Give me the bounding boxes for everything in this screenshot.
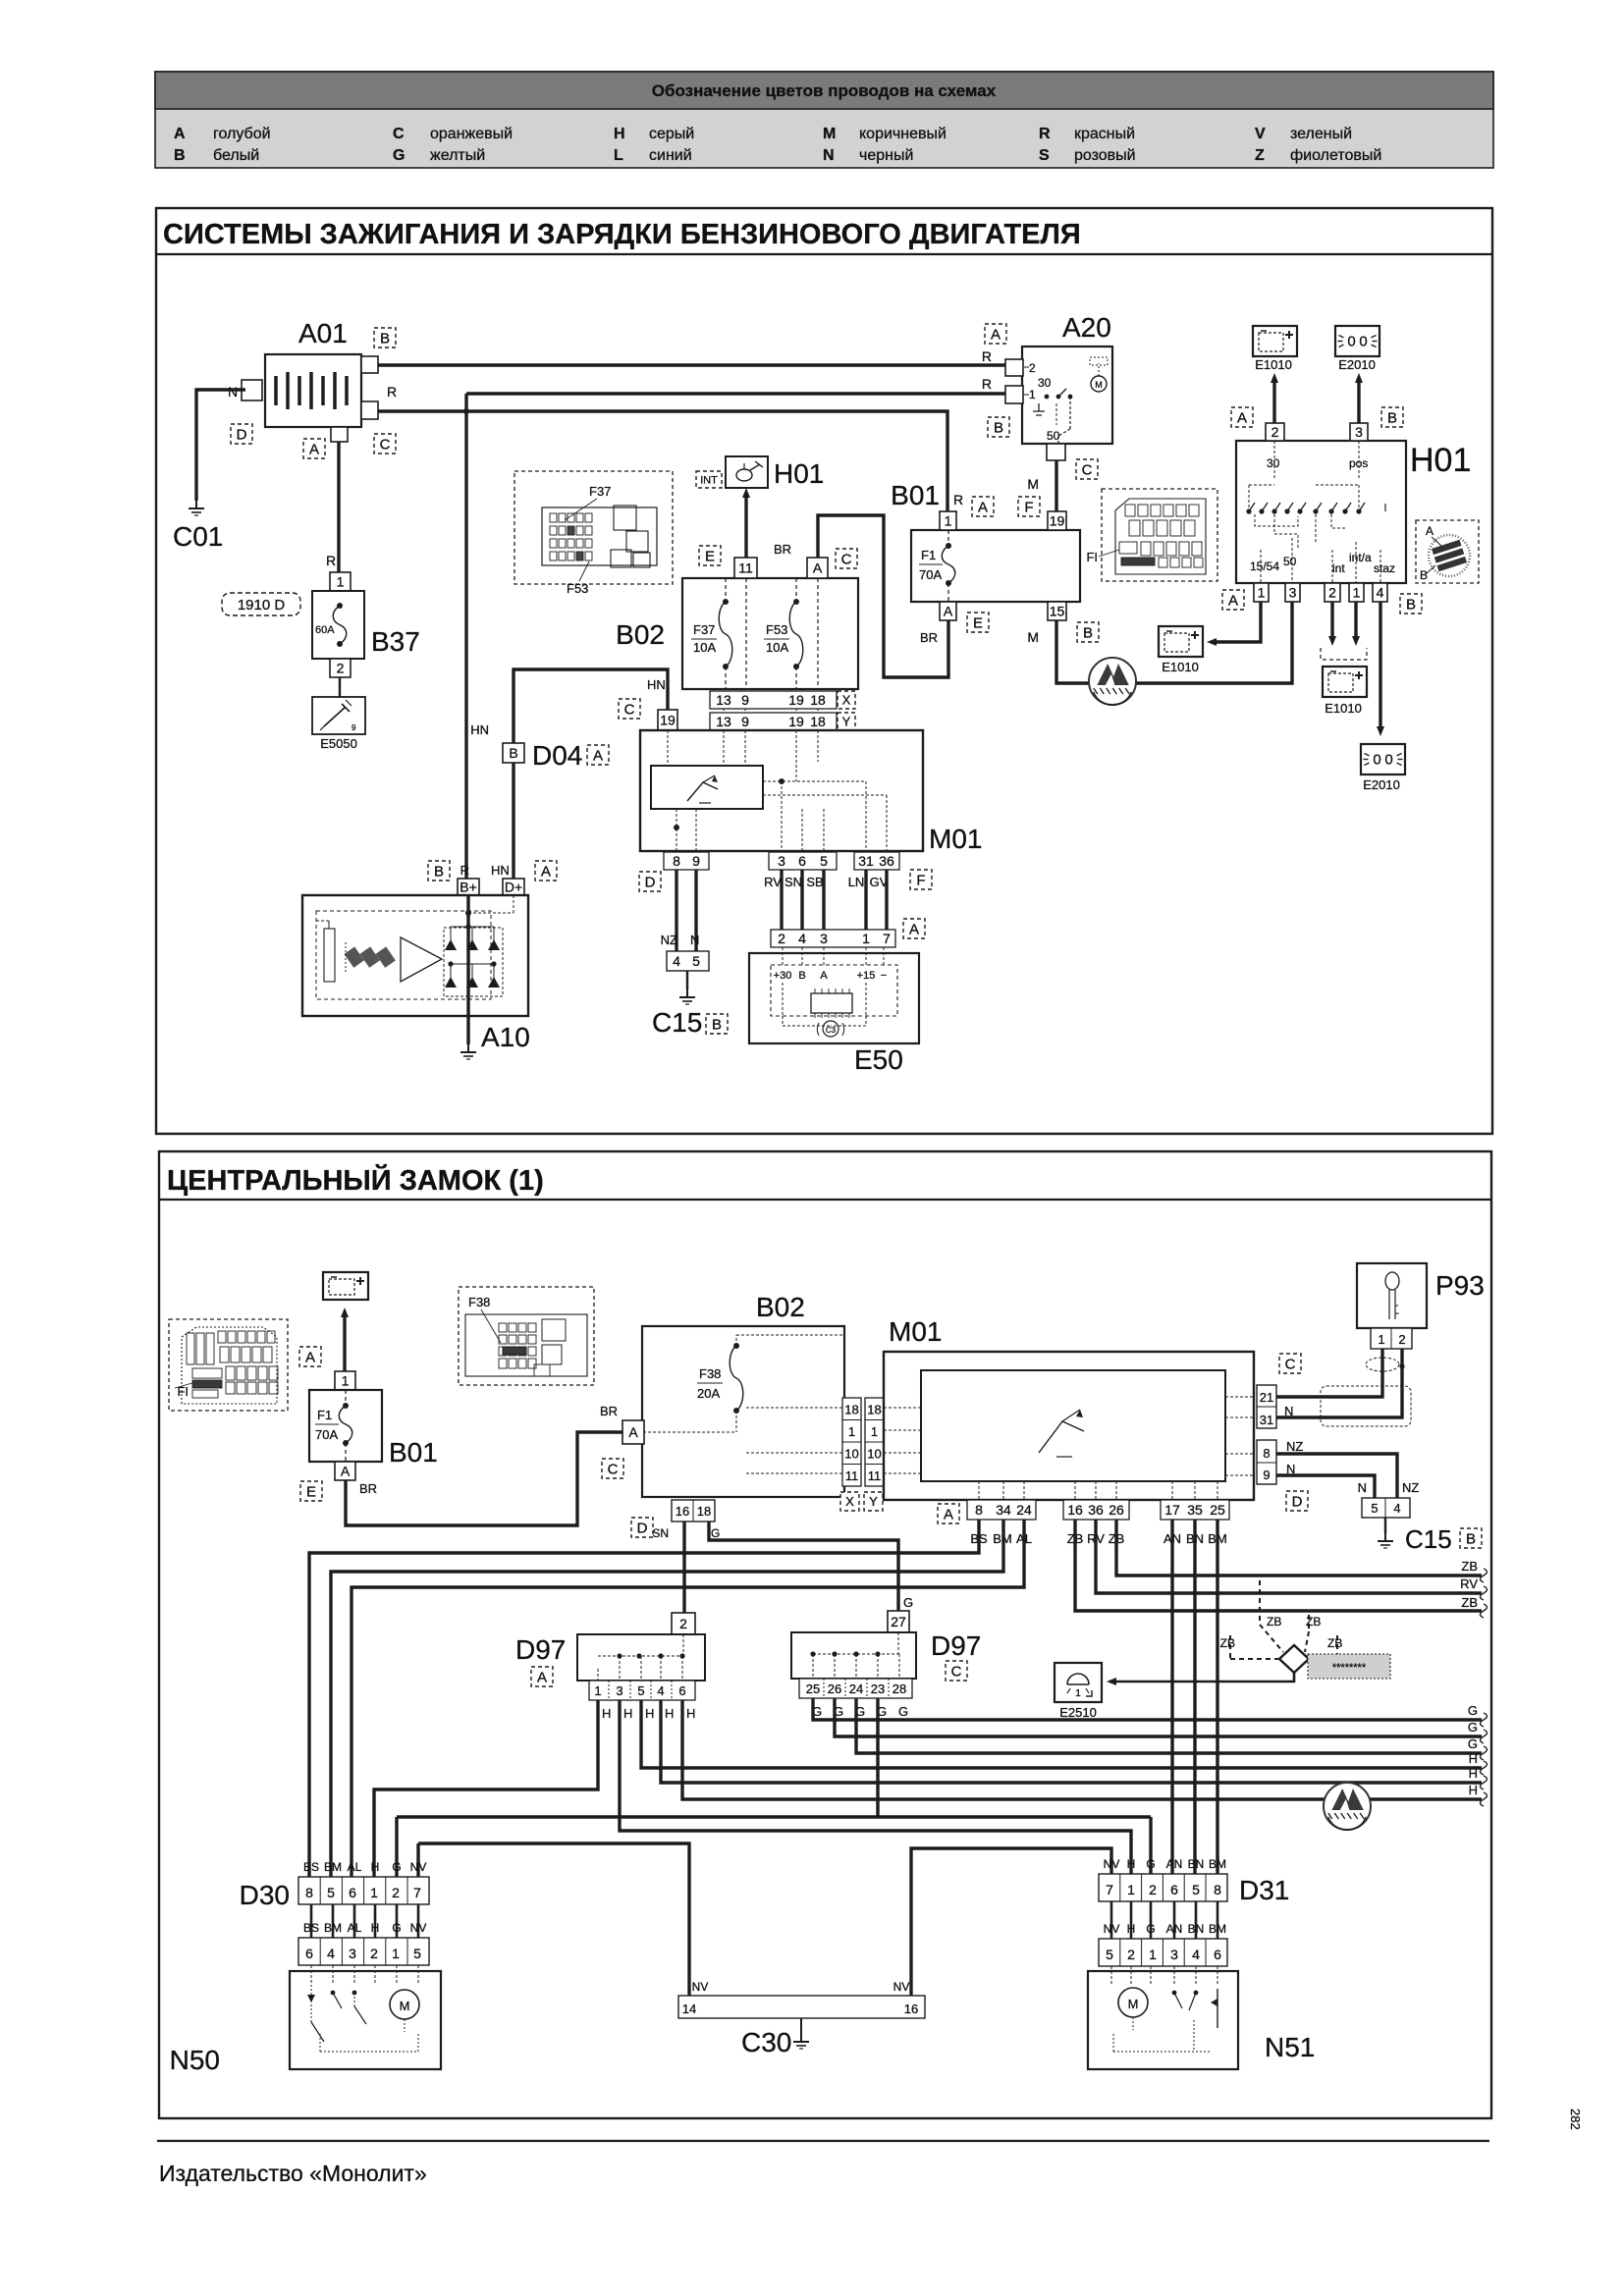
faded label box	[1308, 1654, 1390, 1679]
svg-text:F53: F53	[567, 581, 588, 596]
svg-text:H: H	[1469, 1751, 1478, 1766]
svg-text:25: 25	[806, 1682, 820, 1696]
Monolit emblem on wire	[1089, 658, 1136, 705]
svg-text:26: 26	[828, 1682, 841, 1696]
wire N: P93 pin2 to M01 pin 31	[1276, 1349, 1402, 1417]
svg-text:R: R	[1039, 126, 1051, 142]
wire H: D97-A pin 5 to right edge	[641, 1700, 1482, 1768]
svg-text:NZ: NZ	[1286, 1439, 1303, 1454]
svg-text:F: F	[916, 872, 925, 888]
ignition switch H01	[1231, 407, 1471, 583]
svg-text:C15: C15	[1405, 1524, 1452, 1554]
svg-text:желтый: желтый	[430, 147, 485, 164]
svg-text:NV: NV	[410, 1860, 427, 1874]
svg-text:SN: SN	[652, 1526, 669, 1540]
svg-text:1: 1	[594, 1683, 601, 1698]
svg-text:26: 26	[1109, 1502, 1124, 1518]
wire up from B01 pin 1	[343, 1315, 346, 1371]
door lock actuator N51	[1088, 1966, 1315, 2069]
wire H01 pin 2 to E1010	[1272, 383, 1275, 423]
svg-text:36: 36	[879, 853, 894, 869]
svg-text:+30: +30	[774, 970, 792, 982]
svg-text:синий: синий	[649, 147, 692, 164]
svg-text:8: 8	[1263, 1446, 1270, 1461]
svg-text:20A: 20A	[697, 1386, 720, 1401]
svg-text:18: 18	[867, 1403, 881, 1417]
H01 bottom connectors 1 3 2 1 4	[1254, 583, 1269, 602]
wire NV: C30 pin 16 to D31 pin 7	[911, 1848, 1111, 1996]
svg-text:A: A	[813, 561, 823, 576]
svg-text:AL: AL	[348, 1860, 362, 1874]
svg-text:B: B	[174, 147, 186, 164]
svg-text:5: 5	[1106, 1947, 1113, 1962]
svg-text:31: 31	[858, 853, 874, 869]
svg-text:D: D	[1292, 1493, 1303, 1510]
svg-text:A: A	[909, 921, 919, 937]
door lock connector D97-C	[791, 1611, 981, 1681]
svg-text:H: H	[686, 1706, 695, 1721]
svg-text:19: 19	[660, 713, 676, 728]
svg-text:A: A	[820, 970, 828, 982]
svg-text:BM: BM	[1209, 1922, 1226, 1936]
wire G: D97-C pin 23 to D30 and D31	[876, 1698, 879, 1817]
svg-text:зеленый: зеленый	[1290, 126, 1352, 142]
svg-text:F37: F37	[693, 622, 715, 637]
svg-text:NV: NV	[1104, 1922, 1120, 1936]
connector code 1910 D	[222, 593, 300, 615]
svg-text:F38: F38	[699, 1366, 721, 1381]
wire A01-C (R) to B01 pin 1	[378, 411, 947, 511]
wire SN: B02 pin16 to D97-A pin 2	[682, 1522, 685, 1613]
svg-text:E: E	[705, 548, 715, 564]
svg-text:M: M	[1027, 476, 1039, 492]
splice of ZB wires	[1220, 1580, 1343, 1673]
svg-text:M: M	[400, 1999, 410, 2013]
svg-text:A20: A20	[1062, 312, 1111, 343]
wire NZ: M01 pin 8 to C15 pin 4	[1276, 1454, 1397, 1498]
svg-text:282: 282	[1568, 2109, 1583, 2130]
svg-text:A: A	[309, 441, 319, 457]
svg-text:50: 50	[1283, 555, 1297, 568]
svg-text:серый: серый	[649, 126, 694, 142]
svg-text:4: 4	[1393, 1501, 1400, 1516]
wire H: D97-A pin 1 to D30	[374, 1700, 598, 1877]
starter relay A20	[985, 312, 1112, 460]
svg-text:C: C	[951, 1663, 962, 1680]
svg-text:N: N	[690, 933, 699, 947]
svg-text:SN: SN	[784, 875, 802, 889]
svg-text:F1: F1	[921, 548, 936, 562]
svg-text:23: 23	[871, 1682, 885, 1696]
svg-text:10: 10	[844, 1447, 858, 1462]
svg-text:A: A	[944, 1506, 953, 1522]
M01 d2 right connector 8 9	[1257, 1439, 1308, 1511]
footer separator	[157, 2140, 1489, 2142]
svg-text:B37: B37	[371, 626, 420, 657]
wire G: D97-C pin 26 to right edge	[835, 1698, 1482, 1736]
svg-text:1910 D: 1910 D	[238, 597, 286, 614]
svg-text:6: 6	[798, 853, 806, 869]
fuse box inset with F37/F53 location	[514, 471, 673, 596]
svg-text:L: L	[614, 147, 623, 164]
svg-text:BN: BN	[1188, 1857, 1205, 1871]
exterior lighting icon E2010 (lower)	[1361, 744, 1405, 774]
svg-text:18: 18	[844, 1403, 858, 1417]
svg-text:1: 1	[337, 574, 345, 590]
svg-text:V: V	[1255, 126, 1266, 142]
svg-text:1: 1	[862, 931, 870, 946]
svg-text:H01: H01	[1410, 442, 1471, 479]
svg-text:C01: C01	[173, 521, 223, 552]
svg-text:30: 30	[1038, 376, 1052, 390]
svg-text:M: M	[823, 126, 836, 142]
svg-text:28: 28	[893, 1682, 906, 1696]
svg-text:H: H	[623, 1706, 632, 1721]
svg-text:1: 1	[370, 1885, 378, 1900]
svg-text:B: B	[1406, 596, 1416, 613]
svg-text:11: 11	[868, 1468, 882, 1483]
svg-text:19: 19	[788, 714, 804, 729]
fuse box inset F38	[459, 1287, 594, 1385]
svg-text:9: 9	[352, 723, 356, 732]
M01 d2 bottom pin group 16 36 26	[1063, 1500, 1129, 1520]
connector C15 pins 4 5	[667, 951, 709, 971]
M01 bottom pin group 3 6 5	[769, 852, 837, 870]
svg-text:10A: 10A	[766, 640, 788, 655]
svg-text:оранжевый: оранжевый	[430, 126, 513, 142]
svg-text:BS: BS	[303, 1860, 319, 1874]
D97-A pin row 1 3 5 4 6	[589, 1681, 695, 1700]
svg-text:15/54: 15/54	[1250, 560, 1279, 573]
in-line connector D04	[503, 743, 524, 763]
svg-text:N: N	[823, 147, 835, 164]
svg-text:C: C	[1285, 1356, 1296, 1372]
svg-text:1: 1	[1353, 585, 1361, 601]
svg-text:A: A	[537, 1669, 547, 1685]
svg-text:M: M	[1128, 1997, 1139, 2011]
wire A01-A to fuse B37	[337, 442, 340, 572]
svg-text:2: 2	[1328, 585, 1336, 601]
svg-text:4: 4	[657, 1683, 664, 1698]
wire H: D97-A pin 6 to right edge	[682, 1700, 1482, 1799]
svg-text:C: C	[1082, 461, 1093, 478]
svg-text:34: 34	[996, 1502, 1011, 1518]
svg-text:4: 4	[1192, 1947, 1200, 1962]
svg-text:2: 2	[1029, 361, 1036, 375]
wires H01 int/int-a pins down to E1010 (lower)	[1330, 602, 1333, 636]
svg-text:G: G	[1468, 1703, 1478, 1718]
svg-text:SB: SB	[806, 875, 823, 889]
svg-text:2: 2	[1149, 1882, 1157, 1897]
svg-text:E5050: E5050	[320, 736, 357, 751]
battery feed icon (diagram 2)	[323, 1272, 368, 1300]
svg-text:BM: BM	[324, 1860, 342, 1874]
svg-text:A: A	[628, 1424, 638, 1440]
wire BR: B02-A to B01-A	[818, 515, 948, 677]
svg-text:9: 9	[741, 692, 749, 708]
svg-text:F53: F53	[766, 622, 787, 637]
svg-text:G: G	[1146, 1922, 1155, 1936]
svg-text:R: R	[460, 863, 469, 878]
svg-text:0: 0	[1384, 752, 1392, 769]
B02/M01 pin rows 13 9 19 18	[710, 691, 855, 730]
svg-text:2: 2	[778, 931, 785, 946]
svg-text:int: int	[1332, 561, 1345, 575]
connector C15 pins 5 4 (diagram 2)	[1362, 1498, 1410, 1518]
ground C15	[686, 971, 688, 989]
svg-text:6: 6	[349, 1885, 356, 1900]
svg-text:X: X	[845, 1494, 854, 1509]
svg-text:P93: P93	[1435, 1270, 1485, 1301]
svg-text:NZ: NZ	[661, 933, 677, 947]
exterior lighting icon E2010 (top)	[1335, 326, 1380, 356]
svg-text:B: B	[509, 745, 517, 761]
svg-text:ZB: ZB	[1327, 1636, 1342, 1650]
svg-text:+15: +15	[857, 970, 876, 982]
svg-text:A10: A10	[481, 1022, 530, 1052]
B02 top connector 11	[734, 558, 757, 578]
fuse box inset FI (engine compartment)	[1086, 489, 1217, 581]
svg-text:M01: M01	[929, 824, 982, 854]
wire A01-B to A20 pin 2	[378, 363, 1005, 366]
svg-text:15: 15	[1050, 604, 1065, 619]
svg-text:коричневый: коричневый	[859, 126, 947, 142]
svg-text:8: 8	[673, 853, 680, 869]
svg-text:E2010: E2010	[1338, 357, 1376, 372]
svg-text:3: 3	[778, 853, 785, 869]
svg-text:G: G	[393, 147, 405, 164]
svg-text:H: H	[371, 1921, 380, 1935]
svg-text:17: 17	[1164, 1502, 1180, 1518]
B02 left connector A	[622, 1420, 644, 1444]
svg-text:A: A	[541, 863, 551, 880]
svg-text:0: 0	[1373, 752, 1380, 769]
svg-text:D31: D31	[1239, 1875, 1289, 1905]
svg-text:H: H	[614, 126, 625, 142]
svg-text:R: R	[982, 376, 992, 392]
svg-text:D+: D+	[505, 880, 522, 895]
svg-text:2: 2	[370, 1946, 378, 1961]
svg-text:0: 0	[1347, 334, 1355, 350]
svg-text:G: G	[392, 1921, 401, 1935]
svg-text:ZB: ZB	[1461, 1559, 1478, 1574]
connector row E50 pins 2 4 3 1 7	[771, 919, 925, 947]
door lock actuator N50	[170, 1965, 441, 2075]
battery feed icon E1010 (top)	[1253, 326, 1297, 356]
svg-text:RV: RV	[764, 875, 782, 889]
svg-text:11: 11	[738, 561, 753, 576]
svg-text:NV: NV	[1104, 1857, 1120, 1871]
svg-text:FI: FI	[177, 1384, 189, 1399]
svg-text:1: 1	[1075, 1688, 1081, 1699]
svg-text:красный: красный	[1074, 126, 1135, 142]
immobiliser icon H01/INT	[696, 456, 824, 489]
svg-text:2: 2	[1271, 424, 1279, 440]
wire G: B02 pin18 to D97-C pin 27	[709, 1522, 898, 1611]
svg-text:M: M	[1095, 380, 1103, 390]
wire H: D97-A pin 3 to D31	[620, 1700, 1131, 1874]
svg-text:0: 0	[1359, 334, 1367, 350]
wire BR: B01-A to B02-A (diagram 2)	[346, 1432, 622, 1525]
M01 bottom pin group 31 36	[854, 852, 899, 870]
wire H01 pin1 to battery E1010 (mid)	[1214, 602, 1261, 642]
svg-text:S: S	[1039, 147, 1050, 164]
wire N: M01 pin 9 to C15 pin 5	[1276, 1475, 1375, 1498]
svg-text:2: 2	[1127, 1947, 1135, 1962]
svg-text:BR: BR	[920, 630, 938, 645]
svg-text:4: 4	[673, 953, 680, 969]
svg-text:18: 18	[810, 714, 826, 729]
svg-text:СИСТЕМЫ ЗАЖИГАНИЯ И ЗАРЯДКИ БЕ: СИСТЕМЫ ЗАЖИГАНИЯ И ЗАРЯДКИ БЕНЗИНОВОГО …	[163, 219, 1081, 250]
svg-text:19: 19	[788, 692, 804, 708]
svg-text:21: 21	[1260, 1390, 1273, 1405]
svg-text:1: 1	[1258, 585, 1266, 601]
svg-text:E1010: E1010	[1255, 357, 1292, 372]
ground below A10	[466, 1016, 469, 1044]
svg-text:B: B	[798, 970, 805, 982]
svg-text:E1010: E1010	[1162, 660, 1199, 674]
svg-text:C: C	[624, 701, 635, 718]
svg-text:B: B	[712, 1016, 722, 1033]
svg-text:13: 13	[716, 692, 731, 708]
wire G: D97-C pin 24 to right edge	[856, 1698, 1482, 1753]
svg-text:C: C	[608, 1461, 619, 1477]
wire H01 staz pin 4 to E2010 (lower)	[1379, 602, 1381, 726]
svg-text:A: A	[174, 126, 186, 142]
svg-text:R: R	[953, 492, 963, 507]
svg-text:D: D	[637, 1520, 648, 1536]
svg-text:BM: BM	[324, 1921, 342, 1935]
svg-text:R: R	[982, 348, 992, 364]
svg-text:24: 24	[849, 1682, 863, 1696]
svg-text:B02: B02	[756, 1292, 805, 1322]
svg-text:2: 2	[679, 1616, 687, 1631]
door lock connector D97-A	[515, 1613, 705, 1686]
svg-text:NV: NV	[893, 1980, 910, 1994]
svg-text:6: 6	[305, 1946, 313, 1961]
svg-text:4: 4	[1377, 585, 1384, 601]
svg-text:фиолетовый: фиолетовый	[1290, 147, 1381, 164]
svg-text:RV: RV	[1460, 1576, 1478, 1591]
svg-text:9: 9	[692, 853, 700, 869]
svg-text:H: H	[665, 1706, 674, 1721]
wire RV from M01 pin 36 to right edge	[1096, 1520, 1482, 1593]
svg-text:16: 16	[904, 2002, 918, 2016]
svg-text:D04: D04	[532, 740, 582, 771]
svg-text:E: E	[306, 1483, 316, 1500]
svg-text:M01: M01	[889, 1316, 942, 1347]
svg-text:B: B	[1387, 409, 1397, 426]
svg-text:5: 5	[692, 953, 700, 969]
svg-text:B: B	[434, 863, 444, 880]
svg-text:R: R	[387, 384, 397, 400]
svg-text:8: 8	[1214, 1882, 1221, 1897]
svg-text:H: H	[1127, 1922, 1136, 1936]
svg-text:N51: N51	[1265, 2032, 1315, 2062]
svg-text:G: G	[392, 1860, 401, 1874]
svg-text:ZB: ZB	[1220, 1636, 1235, 1650]
svg-text:AL: AL	[348, 1921, 362, 1935]
svg-text:1: 1	[342, 1373, 350, 1389]
svg-text:A: A	[978, 499, 988, 515]
svg-text:24: 24	[1016, 1502, 1032, 1518]
wire M: B01 pin 15 to H01 bottom pin 3	[1056, 602, 1292, 683]
svg-text:NV: NV	[410, 1921, 427, 1935]
wires AN BN BM: M01 pins 17 35 25 to D31	[1170, 1520, 1173, 1874]
svg-text:F38: F38	[468, 1295, 490, 1309]
svg-text:BN: BN	[1188, 1922, 1205, 1936]
fusible link B37 60A	[312, 572, 420, 677]
ground C15 (diagram 2)	[1384, 1518, 1386, 1533]
svg-text:36: 36	[1088, 1502, 1104, 1518]
svg-text:BM: BM	[1209, 1857, 1226, 1871]
fuse unit B02 (diagram 2) with F38 20A	[642, 1292, 844, 1497]
wire colour legend box	[155, 72, 1493, 168]
svg-text:2: 2	[337, 661, 345, 676]
svg-text:ZB: ZB	[1306, 1615, 1321, 1629]
svg-text:5: 5	[327, 1885, 335, 1900]
wire HN: alternator D+ to M01 pin 19 via connector D04	[514, 669, 668, 879]
svg-text:3: 3	[616, 1683, 622, 1698]
alternator with regulator A10	[302, 895, 530, 1052]
svg-text:E2510: E2510	[1059, 1705, 1097, 1720]
svg-text:16: 16	[1067, 1502, 1083, 1518]
wire NV: D30 pin 7 to C30 pin 14	[416, 1843, 419, 1877]
fuse box inset FI (diagram 2)	[169, 1319, 288, 1411]
M01 d2 bottom pin group 17 35 25	[1161, 1500, 1229, 1520]
svg-text:R: R	[326, 553, 336, 568]
svg-text:C: C	[841, 551, 852, 567]
twisted pair marking	[1366, 1358, 1399, 1371]
svg-text:18: 18	[697, 1504, 711, 1519]
svg-text:staz: staz	[1374, 561, 1395, 575]
svg-text:HN: HN	[470, 722, 489, 737]
battery icon E1010 (mid)	[1159, 626, 1203, 657]
wires M01 pins 8,9 to C15	[675, 870, 677, 951]
svg-text:H01: H01	[774, 458, 824, 489]
svg-text:Z: Z	[1255, 147, 1265, 164]
svg-text:B: B	[1466, 1530, 1476, 1547]
svg-text:Издательство «Монолит»: Издательство «Монолит»	[159, 2161, 427, 2186]
svg-text:1: 1	[1378, 1332, 1384, 1347]
svg-text:BR: BR	[774, 542, 791, 557]
svg-text:B: B	[1420, 568, 1428, 582]
svg-text:E2010: E2010	[1363, 777, 1400, 792]
svg-text:A: A	[341, 1464, 351, 1479]
wire BM: M01 pin 34 to D30	[331, 1520, 1003, 1877]
svg-text:B: B	[380, 330, 390, 347]
svg-text:G: G	[1468, 1720, 1478, 1735]
svg-text:N50: N50	[170, 2045, 220, 2075]
wire P93 pin1 to M01 pin 21	[1276, 1349, 1382, 1397]
svg-text:D97: D97	[931, 1630, 981, 1661]
svg-text:розовый: розовый	[1074, 147, 1136, 164]
svg-text:B+: B+	[460, 880, 477, 895]
diagram 2 frame: central locking	[159, 1151, 1491, 2118]
wire A01-N to ground C01	[196, 390, 245, 501]
svg-text:5: 5	[1371, 1501, 1378, 1516]
svg-text:7: 7	[1106, 1882, 1113, 1897]
svg-text:A: A	[991, 326, 1001, 343]
svg-text:белый: белый	[213, 147, 259, 164]
svg-text:X: X	[842, 693, 851, 708]
body computer M01 (diagram 1)	[640, 730, 982, 854]
svg-text:6: 6	[1170, 1882, 1178, 1897]
svg-text:B: B	[994, 419, 1003, 436]
svg-text:50: 50	[1047, 429, 1060, 443]
svg-text:H: H	[1469, 1766, 1478, 1781]
svg-text:3: 3	[349, 1946, 356, 1961]
